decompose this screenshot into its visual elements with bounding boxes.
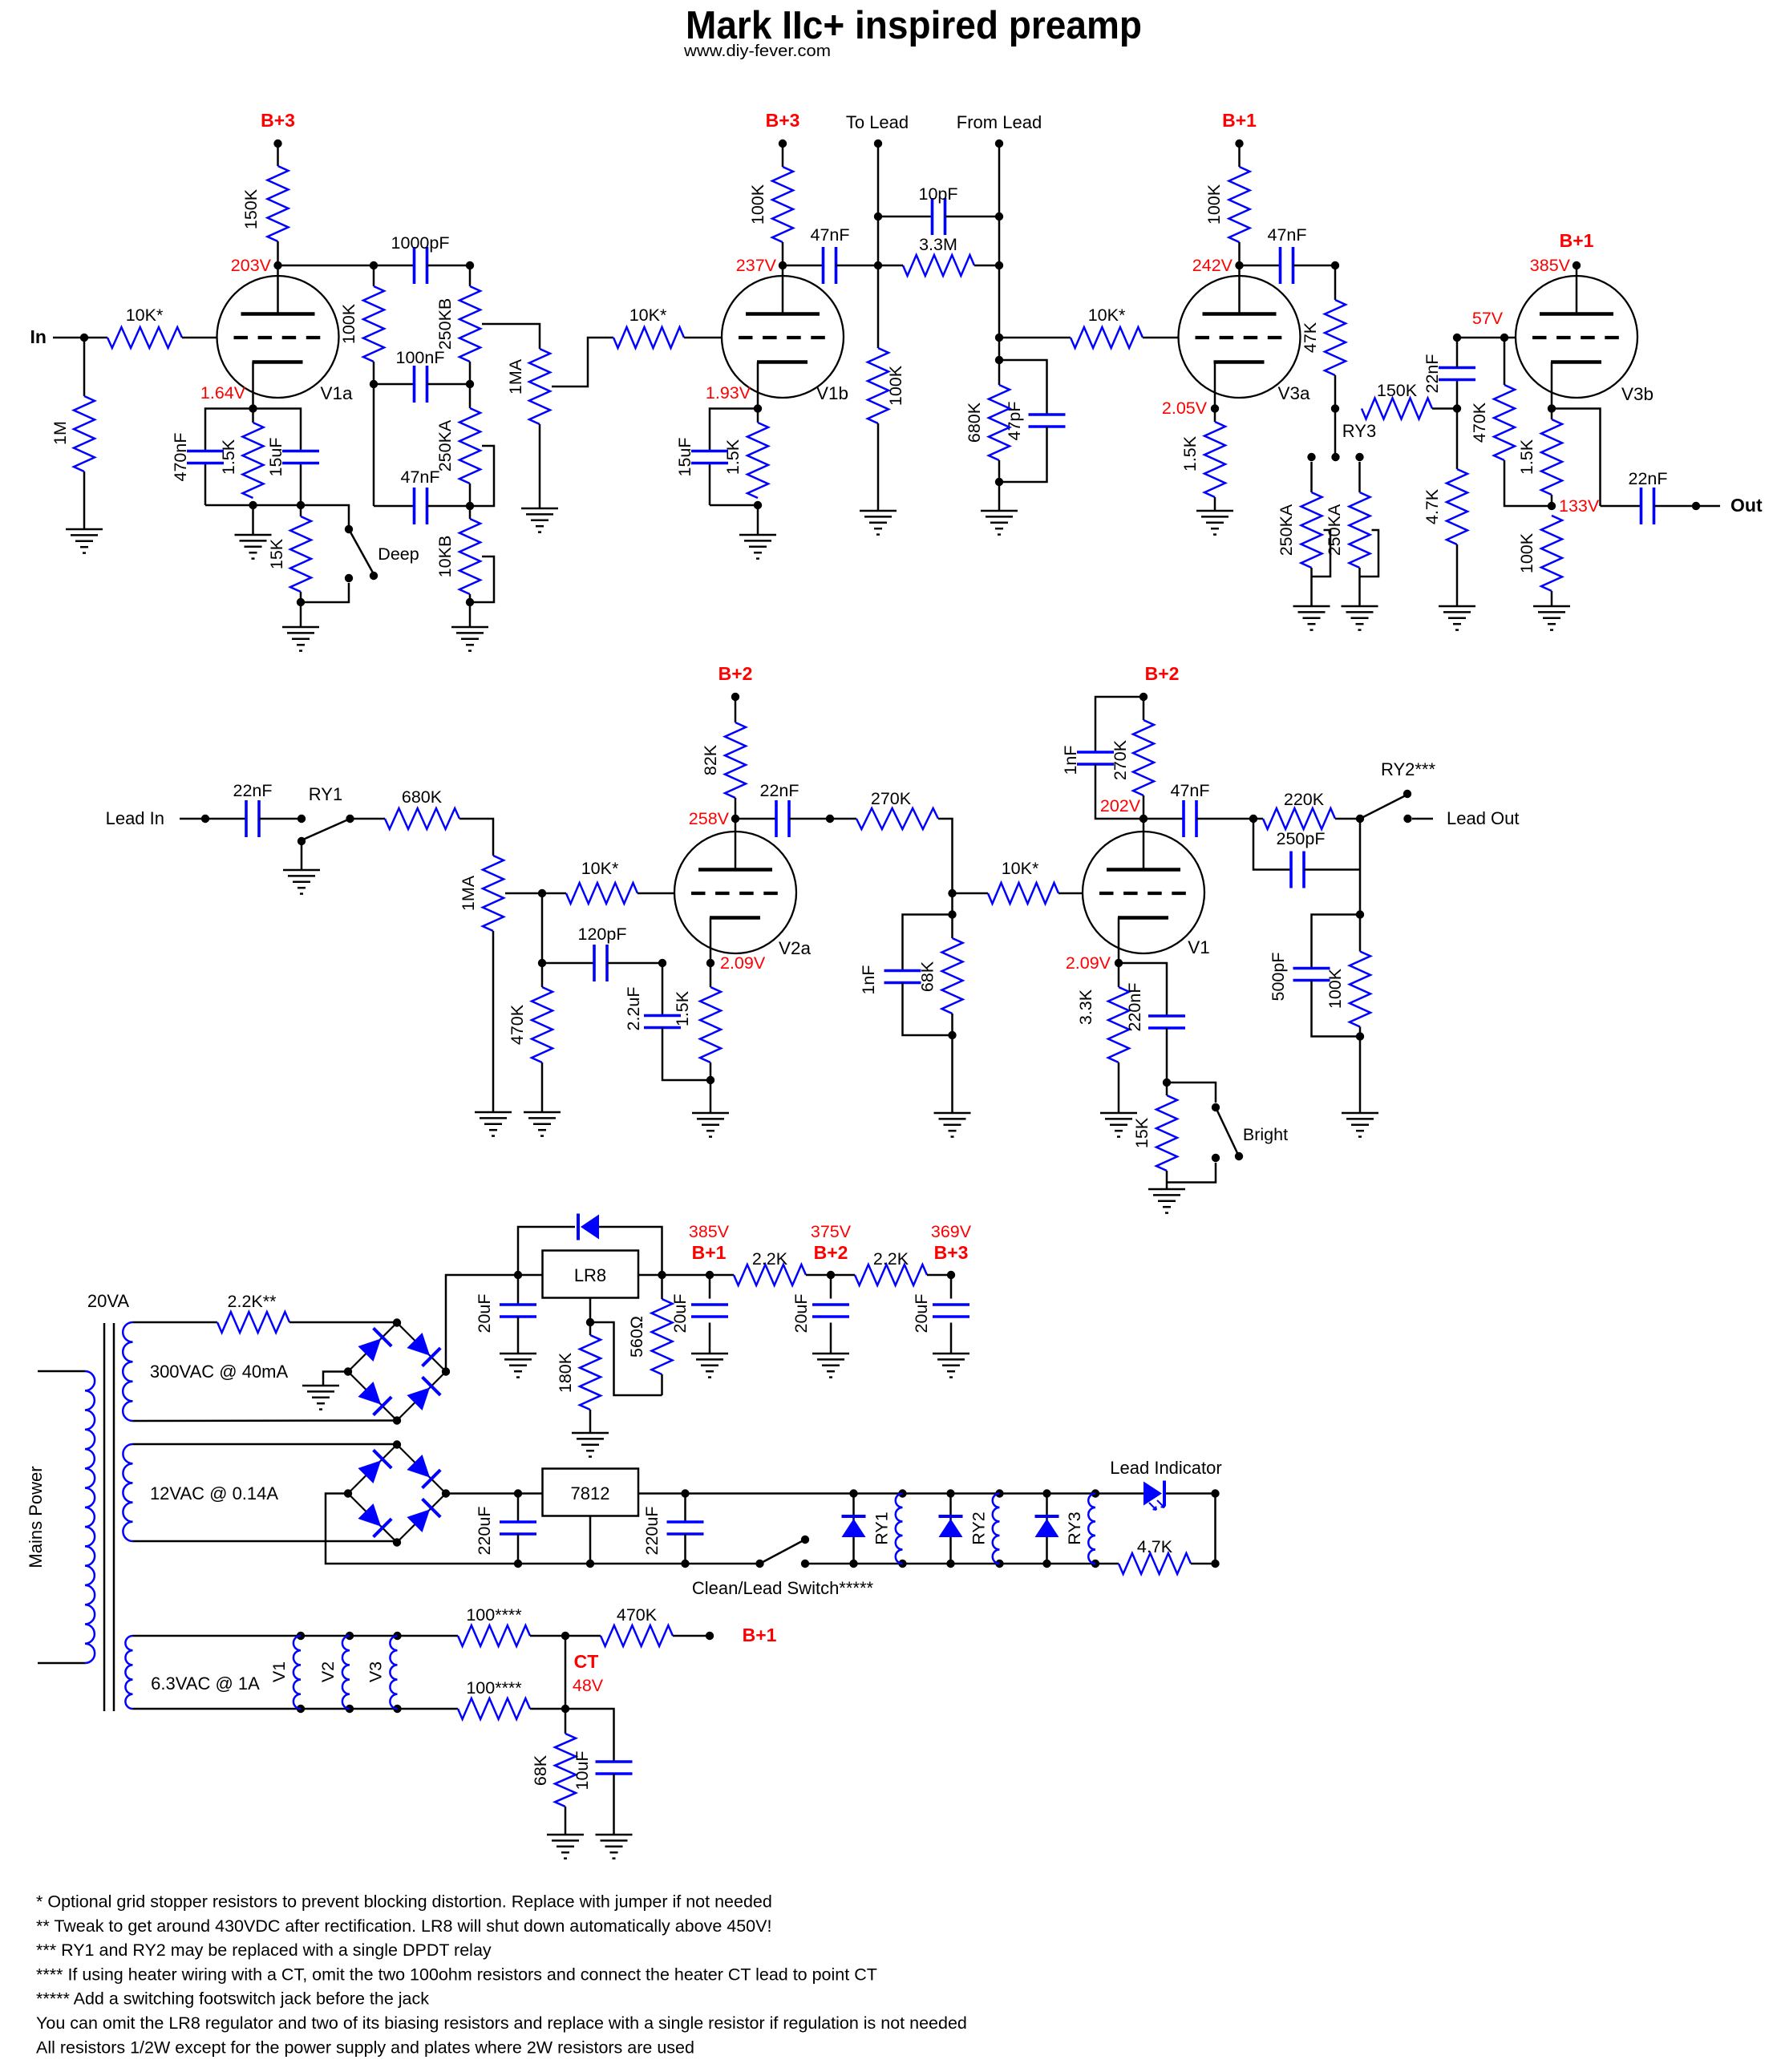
- svg-text:Mains Power: Mains Power: [26, 1466, 46, 1568]
- node 220uF reg top: [681, 1489, 689, 1497]
- node 47K bottom: [1331, 404, 1339, 412]
- wire 3.3K ground: [1118, 1062, 1120, 1113]
- wire 68K top: [565, 1709, 567, 1734]
- node 57V junction A: [1453, 334, 1461, 342]
- ground 20uF B+1: [691, 1353, 728, 1355]
- wire 680K ground: [998, 482, 1001, 511]
- resistor 2.2K filter B: [855, 1265, 927, 1285]
- resistor 470K V2a grid leak: [532, 987, 553, 1062]
- wire 470K stub left: [565, 1635, 601, 1637]
- wire 150K to 22nF node: [1432, 407, 1457, 410]
- svg-text:1.5K: 1.5K: [1180, 435, 1200, 471]
- wire B+3 to 150K: [277, 144, 279, 166]
- regulator 7812 box: [543, 1469, 639, 1516]
- capacitor 47nF lead out: [1182, 800, 1185, 837]
- wire 1nF fb bottom: [1095, 764, 1143, 819]
- wire 220K to RY2: [1335, 818, 1360, 820]
- svg-text:V3b: V3b: [1621, 384, 1653, 404]
- node In junction: [80, 334, 88, 342]
- wire 100nF row left: [374, 383, 415, 386]
- svg-text:B+3: B+3: [934, 1242, 969, 1263]
- svg-text:1.5K: 1.5K: [723, 439, 743, 475]
- capacitor 500pF: [1293, 967, 1330, 970]
- node LR8 input: [514, 1271, 522, 1279]
- wire 560 bottom: [661, 1374, 663, 1395]
- wire diode RY2 column: [949, 1494, 952, 1564]
- potentiometer 1MA volume: [529, 349, 550, 424]
- node Lead Out contact: [1403, 815, 1411, 823]
- ground 1MA: [521, 508, 558, 510]
- svg-text:220uF: 220uF: [642, 1507, 662, 1556]
- wire 250pF branch right: [1304, 868, 1360, 871]
- node lead in junction: [201, 815, 209, 823]
- node 202V plate V1: [1139, 815, 1148, 823]
- wire 202V to 47nF lead: [1143, 818, 1184, 820]
- wire V2a cathode ground: [710, 1080, 712, 1113]
- resistor 100K to-lead divider: [868, 348, 888, 423]
- wire From Lead to 10K: [999, 337, 1071, 339]
- svg-text:47nF: 47nF: [810, 225, 849, 245]
- wire V1b plate: [782, 265, 784, 314]
- svg-text:V1a: V1a: [320, 383, 353, 403]
- resistor 270K V1 plate load: [1133, 720, 1154, 795]
- wire 7812 output: [638, 1492, 1095, 1495]
- node V2a cathode bottom: [706, 1076, 714, 1084]
- wire 250KB top: [469, 265, 472, 286]
- svg-text:250pF: 250pF: [1277, 829, 1326, 848]
- node 270K left: [826, 815, 834, 823]
- wire 1000pF to 250KB: [427, 265, 471, 267]
- ground V2a cathode: [692, 1112, 729, 1115]
- node cathode bottom V1a: [249, 501, 257, 509]
- node 258V plate V2a: [731, 815, 739, 823]
- relay RY1 lever end: [346, 815, 354, 823]
- svg-text:RY1: RY1: [872, 1512, 892, 1544]
- svg-text:22nF: 22nF: [1628, 469, 1667, 488]
- diode flyback RY1: [842, 1515, 866, 1518]
- switch Deep lever: [349, 529, 374, 574]
- svg-text:2.2uF: 2.2uF: [624, 987, 643, 1031]
- node diode RY3 bottom: [1042, 1560, 1050, 1568]
- wire 47nF to 47K: [1293, 265, 1336, 267]
- wire V1 plate: [1143, 819, 1145, 870]
- switch Bright contact A: [1212, 1103, 1220, 1111]
- node 1nF 68K top: [948, 910, 956, 918]
- ground 15K deep: [282, 626, 319, 629]
- svg-text:10K*: 10K*: [126, 306, 164, 325]
- wire V1b cathode: [757, 362, 759, 409]
- wire 100K tail ground: [1359, 1037, 1362, 1114]
- capacitor 22nF lead input: [245, 800, 248, 837]
- wire V2a cathode: [710, 918, 712, 964]
- wire 1MA lead ground: [492, 931, 495, 1112]
- svg-text:V1: V1: [269, 1661, 289, 1682]
- svg-text:22nF: 22nF: [233, 781, 272, 800]
- wire 68K top: [951, 915, 953, 939]
- switch clean/lead contact B: [801, 1560, 809, 1568]
- capacitor 22nF output: [1640, 488, 1643, 524]
- wire V3a plate: [1238, 265, 1241, 314]
- svg-text:250KA: 250KA: [1277, 504, 1296, 556]
- svg-text:B+3: B+3: [766, 110, 800, 131]
- resistor 10K* V1 grid: [988, 883, 1058, 904]
- wire 20uF B+2 top: [830, 1275, 832, 1299]
- wire 250pF branch left: [1253, 819, 1291, 870]
- svg-text:2.2K: 2.2K: [873, 1249, 909, 1269]
- svg-text:250KA: 250KA: [435, 419, 455, 471]
- wire 680K to 1MA: [459, 819, 493, 856]
- resistor 680K from-lead load: [989, 385, 1010, 460]
- wire 22nF to grid wire: [1456, 338, 1459, 368]
- capacitor 250pF: [1289, 852, 1293, 888]
- wire 242V to 47nF: [1240, 265, 1281, 267]
- wire 3.3K top: [1118, 963, 1120, 987]
- wire 258V to 22nF: [735, 818, 776, 820]
- svg-text:680K: 680K: [965, 402, 984, 443]
- node LED right: [1211, 1489, 1219, 1497]
- wire 1nF branch: [903, 915, 953, 971]
- wire RY3 right contact down: [1358, 462, 1361, 492]
- wire to 10K lead: [542, 892, 566, 895]
- svg-text:57V: 57V: [1472, 309, 1504, 328]
- wire To Lead vertical: [877, 144, 880, 348]
- svg-text:1.93V: 1.93V: [706, 383, 751, 403]
- svg-text:10K*: 10K*: [581, 859, 619, 878]
- wire 100K to 237V node: [782, 242, 784, 265]
- ground 10KB: [451, 626, 488, 629]
- capacitor 20uF B+1: [691, 1303, 728, 1306]
- resistor 68K heater ref: [555, 1734, 576, 1807]
- node LR8 adj: [586, 1318, 594, 1326]
- resistor 100 ohm humdinger B: [458, 1698, 530, 1719]
- svg-text:V2: V2: [318, 1661, 338, 1682]
- capacitor 47nF tone: [413, 488, 416, 524]
- relay coil RY2: [993, 1494, 1000, 1564]
- ground bridge HT: [302, 1385, 339, 1387]
- wire to deep switch top contact: [301, 505, 349, 527]
- node V1b cathode bottom: [754, 501, 762, 509]
- wire 47nF to 220K: [1196, 818, 1253, 820]
- wire V1b cathode ground: [757, 505, 759, 535]
- wire 0V rail to switch: [518, 1563, 760, 1565]
- transformer secondary 12VAC: [123, 1444, 132, 1541]
- wire 1.5K V3a ground: [1214, 497, 1216, 511]
- wire 100K to-lead ground: [877, 423, 880, 511]
- svg-text:100K: 100K: [339, 303, 358, 344]
- svg-text:15K: 15K: [267, 538, 286, 569]
- svg-text:385V: 385V: [689, 1222, 730, 1241]
- switch Bright lever: [1216, 1107, 1238, 1155]
- node diode RY3 top: [1042, 1489, 1050, 1497]
- svg-text:500pF: 500pF: [1269, 953, 1288, 1002]
- svg-text:100K: 100K: [748, 184, 767, 225]
- svg-text:Lead In: Lead In: [106, 808, 164, 828]
- wire left rail down: [373, 384, 375, 506]
- svg-text:237V: 237V: [736, 256, 777, 275]
- svg-text:V1b: V1b: [816, 383, 848, 403]
- wire 470K to B+1: [673, 1635, 710, 1637]
- wire 1MA lead wiper: [505, 892, 542, 895]
- wire 2.2K to B2: [806, 1274, 831, 1277]
- wire 180K ground: [589, 1410, 592, 1433]
- ground 1MA lead: [475, 1111, 512, 1114]
- ground V1a cathode: [235, 534, 272, 536]
- wire 22nF to RY1: [259, 818, 302, 820]
- node 100K tail bottom: [1356, 1032, 1364, 1040]
- node CT top: [561, 1632, 569, 1640]
- switch Deep contact A: [345, 525, 353, 533]
- node 2.09V V2a: [706, 959, 714, 967]
- wire V1a plate: [277, 265, 279, 314]
- wire 47K to RY3: [1334, 409, 1337, 455]
- node 2.09V V1: [1115, 959, 1123, 967]
- wire lead in stub: [180, 818, 205, 820]
- svg-text:220nF: 220nF: [1125, 983, 1144, 1032]
- wire diode RY3 column: [1046, 1494, 1048, 1564]
- svg-text:242V: 242V: [1192, 256, 1233, 275]
- svg-text:B+1: B+1: [1560, 230, 1594, 251]
- node B+1 supply: [706, 1271, 714, 1279]
- resistor 560 ohm: [652, 1299, 673, 1374]
- wire 10KB bottom: [469, 594, 472, 602]
- resistor 100K divider: [363, 286, 384, 362]
- wire 100A to CT: [530, 1635, 565, 1637]
- capacitor 120pF: [593, 945, 596, 981]
- svg-text:375V: 375V: [811, 1222, 852, 1241]
- svg-text:CT: CT: [574, 1651, 599, 1672]
- wire 300V top lead: [133, 1321, 218, 1324]
- svg-text:300VAC @ 40mA: 300VAC @ 40mA: [150, 1362, 289, 1382]
- ground 20uF B+2: [812, 1353, 849, 1355]
- svg-text:270K: 270K: [1111, 739, 1130, 780]
- wire cathode box right bottom: [300, 463, 302, 505]
- potentiometer 250KA: [459, 408, 480, 484]
- wire bridge 12V plus: [446, 1492, 543, 1495]
- svg-text:100K: 100K: [1326, 968, 1345, 1009]
- svg-text:LR8: LR8: [574, 1265, 606, 1285]
- wire 220nF branch: [1119, 963, 1167, 1016]
- svg-text:15K: 15K: [1132, 1117, 1152, 1148]
- node 242V plate V3a: [1235, 261, 1243, 269]
- node bridge 12V left: [344, 1489, 352, 1497]
- svg-text:10K*: 10K*: [1002, 859, 1039, 878]
- wire 20uF B+2 ground: [830, 1323, 832, 1354]
- ground 20uF B+3: [933, 1353, 969, 1355]
- node coil RY3 top: [1091, 1489, 1099, 1497]
- node bridge 12V right: [442, 1489, 450, 1497]
- ground 250KA B: [1342, 605, 1378, 608]
- wire 680K bottom: [998, 460, 1001, 482]
- capacitor 47nF coupling V3a: [1279, 247, 1282, 284]
- svg-text:100nF: 100nF: [396, 348, 445, 367]
- node 220uF raw bottom: [514, 1560, 522, 1568]
- wire bridge 12V minus: [326, 1494, 518, 1564]
- wire 1MA bottom to ground: [539, 424, 541, 508]
- node coil RY2 bottom: [995, 1560, 1003, 1568]
- wire 15K to ground: [300, 602, 302, 627]
- wire 180K top stub: [589, 1322, 592, 1335]
- capacitor 470nF V1a cathode: [187, 450, 224, 453]
- node heater V3 top: [393, 1632, 401, 1640]
- node diode RY2 top: [946, 1489, 954, 1497]
- svg-text:B+3: B+3: [261, 110, 295, 131]
- svg-text:22nF: 22nF: [759, 781, 799, 800]
- wire diode right: [599, 1227, 662, 1275]
- wire 20uF raw top: [517, 1275, 520, 1305]
- svg-text:133V: 133V: [1559, 496, 1600, 516]
- ground 3.3K: [1100, 1112, 1137, 1115]
- resistor 470K V3b grid: [1494, 385, 1515, 460]
- svg-text:In: In: [30, 326, 47, 347]
- relay RY2 lever end: [1403, 790, 1411, 798]
- wire V1b cathode box low: [709, 463, 711, 505]
- wire 12V bottom lead: [133, 1540, 398, 1543]
- ground 100K V3b: [1533, 605, 1570, 608]
- svg-text:2.09V: 2.09V: [1066, 953, 1111, 973]
- wire 47K top: [1334, 265, 1337, 300]
- node 100nF left: [370, 380, 378, 388]
- svg-text:82K: 82K: [701, 744, 720, 775]
- node bridge 12V top: [393, 1440, 401, 1448]
- wire diode RY1 column: [852, 1494, 855, 1564]
- resistor 47K: [1325, 300, 1346, 375]
- wire 10pF left: [878, 216, 933, 218]
- wire adj to 560: [590, 1322, 662, 1395]
- transformer secondary 6.3VAC: [125, 1636, 132, 1709]
- capacitor 2.2uF: [644, 1014, 681, 1018]
- capacitor 220nF bypass: [1148, 1014, 1185, 1018]
- transformer primary winding: [85, 1371, 95, 1663]
- wire 15K bottom: [300, 592, 302, 602]
- wire CT vertical: [565, 1636, 567, 1709]
- node heater V1 top: [297, 1632, 305, 1640]
- wire 220uF reg bottom: [684, 1534, 686, 1564]
- node B+3 terminal 1: [273, 140, 281, 148]
- triode V3b: [1516, 276, 1637, 398]
- wire deep bottom contact: [301, 583, 349, 602]
- relay coil RY1: [896, 1494, 903, 1564]
- wire 560 top stub: [661, 1275, 663, 1299]
- node heater V2 bottom: [346, 1705, 354, 1713]
- resistor 15K bright: [1156, 1095, 1177, 1171]
- node heater V2 top: [346, 1632, 354, 1640]
- svg-text:10K*: 10K*: [1088, 306, 1126, 325]
- relay RY1 contact A: [298, 815, 306, 823]
- wire bright switch bottom: [1167, 1163, 1216, 1183]
- wire cathode box right top: [253, 409, 302, 452]
- node 1.64V cathode V1a: [249, 404, 257, 412]
- svg-text:RY1: RY1: [309, 784, 342, 804]
- relay RY1 lever: [303, 819, 350, 840]
- wire 2.2K to bridge: [289, 1321, 397, 1324]
- svg-text:RY2: RY2: [969, 1512, 989, 1544]
- wire 1.5K top: [252, 409, 254, 423]
- node B+2 terminal 1: [731, 693, 739, 701]
- wire 270K left stub: [830, 818, 856, 820]
- wire 1.5K V2a bottom: [710, 1062, 712, 1080]
- svg-text:2.09V: 2.09V: [720, 953, 766, 973]
- wire 47nF to 3.3M: [878, 265, 903, 267]
- svg-text:47nF: 47nF: [400, 467, 439, 487]
- wire heater top lead: [133, 1635, 459, 1637]
- node 7812 ground: [586, 1560, 594, 1568]
- wire B+3 to 100K V1b: [782, 144, 784, 167]
- wire 100nF row right: [427, 383, 471, 386]
- svg-text:***** Add a switching footswit: ***** Add a switching footswitch jack be…: [36, 1989, 429, 2009]
- triode V1b: [722, 276, 844, 398]
- wire 250KA-B bottom: [1358, 568, 1361, 606]
- resistor 82K V2a plate load: [725, 722, 746, 798]
- heater winding V2: [342, 1636, 350, 1709]
- svg-text:68K: 68K: [918, 961, 937, 992]
- node 10pF right: [995, 212, 1003, 221]
- wire bridge HT minus: [323, 1372, 348, 1386]
- wire diode left riser: [518, 1227, 575, 1275]
- switch Bright lever end: [1235, 1152, 1243, 1160]
- capacitor 100nF: [413, 366, 416, 403]
- potentiometer 250KA lead level B: [1350, 492, 1370, 568]
- relay RY1 contact gnd: [298, 837, 306, 845]
- resistor 1.5K V2a cathode: [700, 987, 721, 1062]
- svg-text:1.5K: 1.5K: [1517, 439, 1536, 475]
- wire 100B to CT: [530, 1708, 565, 1710]
- svg-text:V3: V3: [366, 1661, 386, 1682]
- wire to 22nF lead: [205, 818, 246, 820]
- ground 250KA A: [1293, 605, 1330, 608]
- switch Deep lever end: [370, 572, 378, 580]
- wire out stub: [1696, 505, 1720, 508]
- svg-text:* Optional grid stopper resist: * Optional grid stopper resistors to pre…: [36, 1892, 772, 1912]
- resistor 10K* grid stopper V1b: [613, 327, 684, 348]
- wire 270K to 202V: [1143, 795, 1145, 819]
- svg-text:Lead Indicator: Lead Indicator: [1110, 1458, 1221, 1478]
- resistor 1M input load: [74, 396, 95, 471]
- node 560 top: [658, 1271, 666, 1279]
- svg-text:680K: 680K: [402, 787, 443, 807]
- node 203V plate V1a: [273, 261, 281, 269]
- heater winding V3: [390, 1636, 397, 1709]
- potentiometer 250KA lead level A: [1301, 492, 1322, 568]
- wire 15K bright top stub: [1166, 1083, 1168, 1095]
- wire 270K to corner: [938, 819, 953, 893]
- wire 47nF to To-Lead node: [836, 265, 879, 267]
- node 100nF right: [466, 380, 474, 388]
- wire V1a cathode: [252, 362, 254, 409]
- svg-text:*** RY1 and RY2 may be replace: *** RY1 and RY2 may be replaced with a s…: [36, 1940, 492, 1960]
- wire 250KA-B wiper: [1360, 530, 1379, 577]
- svg-text:20uF: 20uF: [670, 1293, 690, 1333]
- svg-text:1MA: 1MA: [459, 875, 478, 911]
- svg-text:1MA: 1MA: [506, 358, 525, 395]
- potentiometer 10KB: [459, 519, 480, 594]
- resistor 4.7K: [1447, 469, 1467, 544]
- wire From Lead vertical: [998, 144, 1001, 385]
- svg-text:1.5K: 1.5K: [219, 439, 238, 475]
- wire 220uF reg top: [684, 1494, 686, 1523]
- wire 220nF bottom: [1166, 1028, 1168, 1083]
- wire plate node to divider: [278, 265, 374, 267]
- wire 1.5K V3a top: [1214, 409, 1216, 423]
- node top rail 250KB: [466, 261, 474, 269]
- svg-text:B+1: B+1: [743, 1625, 777, 1645]
- node heater V1 bottom: [297, 1705, 305, 1713]
- wire 470K bottom: [1504, 460, 1552, 506]
- node 57V junction B: [1500, 334, 1508, 342]
- wire 2.2uF top: [662, 963, 664, 1016]
- wire V1b cathode box: [710, 409, 758, 452]
- svg-text:470K: 470K: [1470, 402, 1489, 443]
- svg-text:1.64V: 1.64V: [200, 383, 246, 403]
